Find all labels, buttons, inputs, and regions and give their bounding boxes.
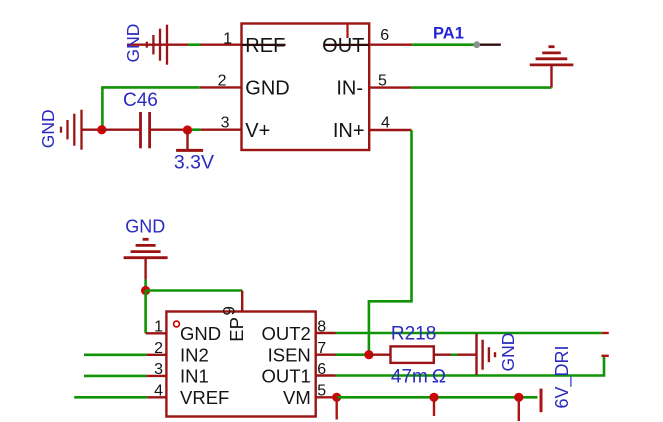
svg-text:IN-: IN- — [336, 78, 363, 100]
wire green segment on REF net — [188, 43, 201, 46]
svg-text:6: 6 — [380, 27, 389, 44]
pin 2 stub — [146, 354, 166, 356]
ground (earth symbol above driver IC) — [124, 239, 168, 279]
wire IN- net to ground — [412, 86, 552, 89]
capacitor C46 — [102, 112, 188, 148]
svg-text:R218: R218 — [391, 323, 436, 344]
svg-text:VREF: VREF — [180, 387, 229, 408]
wire green segment near pin 3 — [192, 128, 201, 131]
node junction at C46 right — [183, 125, 192, 134]
wire from resistor to ground — [434, 354, 477, 356]
svg-text:V+: V+ — [245, 120, 270, 142]
ground GND (top-left, rotated, on REF net) — [147, 25, 167, 65]
wire tiny green segment on resistor right — [451, 354, 458, 356]
wire from left ground to junction — [82, 128, 102, 130]
wire stub down from VM junction 1 — [336, 397, 338, 419]
driver IC U2 body — [166, 312, 315, 417]
pin 5 stub — [369, 86, 411, 88]
wire OUT2 net (green, long) — [336, 332, 602, 335]
wire net to pin 2 (green, left + down) — [102, 87, 199, 129]
node junction at C46 left — [97, 125, 106, 134]
svg-text:GND: GND — [125, 216, 165, 236]
wire green from ground to junction — [144, 280, 147, 291]
svg-text:1: 1 — [154, 319, 163, 336]
wire ISEN net (green) — [336, 353, 369, 356]
svg-text:ISEN: ISEN — [268, 344, 311, 365]
svg-text:PA1: PA1 — [433, 25, 464, 43]
svg-text:GND: GND — [180, 323, 221, 344]
svg-text:EP: EP — [226, 317, 247, 342]
op-amp U1 body — [242, 24, 370, 151]
wire stub down from VM junction 3 — [518, 397, 520, 421]
svg-text:IN1: IN1 — [180, 366, 209, 387]
wire dark segment right of PA1 node — [480, 44, 501, 46]
pin stub on top edge of U1 — [346, 25, 348, 39]
wire net PA1 (green) — [412, 43, 473, 46]
pin 6 stub — [316, 374, 336, 376]
node PA1 (gray junction) — [473, 41, 480, 48]
pin 3 stub — [200, 128, 241, 130]
pin 6 stub — [369, 44, 412, 46]
svg-text:IN2: IN2 — [180, 344, 209, 365]
svg-text:6V_DRI: 6V_DRI — [552, 345, 573, 408]
wire to pin 3 (green) — [84, 375, 146, 378]
pin 3 stub — [146, 375, 166, 377]
wire from ISEN junction to resistor — [369, 354, 391, 356]
node VM junction 3 — [514, 393, 523, 402]
node VM junction 2 — [429, 393, 438, 402]
svg-text:47m Ω: 47m Ω — [391, 367, 446, 388]
pin 1 stub — [146, 332, 167, 334]
pin 4 stub — [369, 129, 411, 131]
pin 4 stub — [147, 396, 166, 398]
wire to pin 4 (green) — [74, 396, 147, 399]
node VM junction 1 — [332, 393, 341, 402]
pin 7 stub — [316, 354, 336, 356]
pin 8 stub — [316, 332, 336, 334]
wire net REF: segment from ground to pin 1 — [127, 44, 189, 46]
ground GND (left, rotated, on V+ row net) — [61, 110, 82, 150]
pin-1 indicator circle — [174, 321, 180, 327]
wire OUT1 net (green, long with up-jog) — [336, 356, 605, 375]
strikethrough over REF — [242, 44, 286, 46]
wire red end segment OUT1 — [602, 355, 609, 357]
wire stub down from VM junction 2 — [433, 397, 435, 416]
svg-text:C46: C46 — [123, 90, 158, 111]
node ISEN junction — [364, 350, 373, 359]
strikethrough over OUT — [324, 44, 370, 46]
svg-text:OUT2: OUT2 — [261, 323, 310, 344]
pin 2 stub — [200, 86, 242, 88]
wire down to pin 1 (green) — [144, 291, 147, 334]
svg-text:GND: GND — [38, 109, 58, 148]
resistor R218 body — [391, 346, 434, 363]
svg-text:GND: GND — [123, 24, 143, 63]
wire IN+ net down to lower section — [369, 130, 412, 355]
wire red end segment OUT2 — [602, 332, 609, 334]
svg-text:VM: VM — [283, 387, 311, 408]
wire pin 1 stub — [201, 44, 242, 46]
svg-text:GND: GND — [245, 78, 289, 100]
ground (rotated, right of R218) — [477, 334, 496, 375]
node GND junction — [141, 286, 150, 295]
svg-text:GND: GND — [498, 333, 518, 372]
svg-text:1: 1 — [223, 31, 232, 48]
wire to EP pin (green) — [146, 289, 243, 292]
svg-text:IN+: IN+ — [333, 120, 365, 142]
wire VM net (green) — [337, 396, 538, 399]
ground (top-right earth symbol) — [530, 47, 574, 88]
power 3.3V bar symbol — [176, 130, 203, 150]
pin 9 EP stub — [241, 291, 243, 312]
power 6V_DRI bar symbol — [540, 389, 543, 413]
pin 5 stub — [316, 396, 337, 398]
wire to pin 2 (green) — [84, 353, 146, 356]
svg-text:3.3V: 3.3V — [174, 151, 214, 173]
svg-text:9: 9 — [220, 306, 239, 315]
svg-text:OUT1: OUT1 — [261, 366, 310, 387]
